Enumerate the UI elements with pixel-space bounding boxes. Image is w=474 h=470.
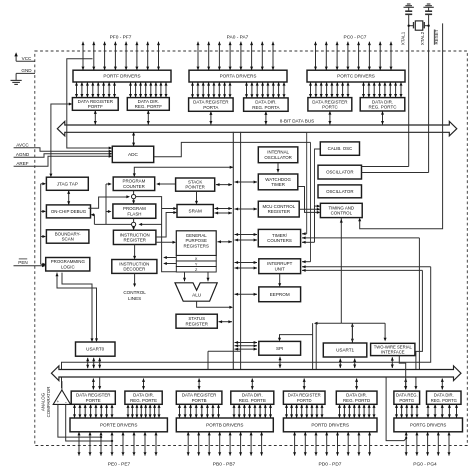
svg-text:JTAG TAP: JTAG TAP xyxy=(57,181,78,186)
PEN input xyxy=(14,259,46,267)
portF data register to bus arrow xyxy=(94,110,97,124)
mcu control to timing arrow xyxy=(299,208,320,211)
data dir. register PORTC xyxy=(360,98,405,111)
portC driver-dir arrows xyxy=(362,82,403,98)
PORTG drivers block xyxy=(394,418,463,432)
svg-text:CALIB. OSC: CALIB. OSC xyxy=(328,146,353,151)
crystal xyxy=(408,21,430,30)
timer bus arrow 1 xyxy=(235,233,258,236)
internal oscillator block xyxy=(258,147,298,163)
timer oscillator wire xyxy=(302,205,315,244)
instruction register to SRAM wires xyxy=(156,207,177,237)
portF data dir to bus arrow xyxy=(147,110,150,124)
data register PORTB xyxy=(176,391,222,404)
bus to portG register arrow xyxy=(404,378,407,389)
portG register-driver arrows xyxy=(395,404,419,418)
calib osc feed rail xyxy=(315,149,321,205)
svg-text:COUNTER: COUNTER xyxy=(123,184,145,189)
svg-text:PORTD DRIVERS: PORTD DRIVERS xyxy=(311,423,349,428)
PORTF drivers block xyxy=(73,70,171,82)
portE register-driver arrows xyxy=(73,404,114,418)
wire bus to program counter xyxy=(133,166,234,177)
data register PORTE xyxy=(71,391,115,404)
data register PORTG xyxy=(394,391,420,404)
portE dir-driver arrows xyxy=(127,404,161,418)
analog comparator xyxy=(53,381,70,405)
wire to on-chip debug xyxy=(91,213,95,224)
AREF input xyxy=(14,155,113,167)
oscillator block 1 xyxy=(318,165,362,179)
instruction decoder block xyxy=(112,260,157,274)
EEPROM block xyxy=(259,287,301,302)
PORTD drivers block xyxy=(283,418,377,432)
svg-text:PORTC: PORTC xyxy=(322,105,338,110)
svg-text:PA0 - PA7: PA0 - PA7 xyxy=(227,34,249,40)
svg-text:REG. PORTF: REG. PORTF xyxy=(135,104,163,109)
svg-text:EEPROM: EEPROM xyxy=(270,292,290,297)
8-bit data bus (upper) xyxy=(57,118,457,135)
bus to portE register arrow xyxy=(92,378,95,389)
svg-text:PD0 - PD7: PD0 - PD7 xyxy=(319,462,342,468)
SPI clock wire xyxy=(278,335,313,342)
portA data register to bus arrow xyxy=(209,111,212,124)
svg-text:PF0 - PF7: PF0 - PF7 xyxy=(110,34,132,40)
portF driver-dir arrows xyxy=(129,82,168,98)
SPI lower bus arrow xyxy=(279,357,282,369)
svg-text:FLASH: FLASH xyxy=(127,211,141,216)
port A pins PA0-PA7 xyxy=(197,34,275,70)
svg-text:AREF: AREF xyxy=(16,161,28,166)
timer long wire right xyxy=(302,236,419,369)
svg-text:PORTB DRIVERS: PORTB DRIVERS xyxy=(206,423,243,428)
portC data register to bus arrow xyxy=(328,111,331,125)
programming logic to USART0 wires xyxy=(56,273,99,342)
port F pins PF0-PF7 xyxy=(82,34,161,70)
USART1 block xyxy=(323,343,367,357)
svg-text:COMPARATOR: COMPARATOR xyxy=(46,387,51,418)
USART0 lower bus arrows xyxy=(86,358,101,369)
XTAL2 wire to oscillator xyxy=(362,51,429,173)
svg-text:SPI: SPI xyxy=(276,346,283,351)
data register PORTC xyxy=(308,98,352,111)
SPI block xyxy=(259,341,301,355)
svg-text:X: X xyxy=(195,257,198,261)
wire on-chip debug to program address node xyxy=(88,195,130,208)
svg-text:PG0 - PG4: PG0 - PG4 xyxy=(413,462,437,468)
stack pointer to SRAM arrow xyxy=(195,191,198,204)
svg-text:USART0: USART0 xyxy=(86,347,104,352)
svg-text:PORTF DRIVERS: PORTF DRIVERS xyxy=(103,74,140,79)
svg-text:INTERFACE: INTERFACE xyxy=(381,349,405,354)
eeprom bus arrow xyxy=(235,293,258,296)
portD dir-driver arrows xyxy=(338,404,376,418)
on-chip debug block xyxy=(46,205,90,218)
svg-text:PORTE: PORTE xyxy=(86,398,101,403)
svg-text:ANALOG: ANALOG xyxy=(40,392,45,411)
data dir. register PORTB xyxy=(231,391,274,404)
svg-text:COUNTERS: COUNTERS xyxy=(267,238,292,243)
bus to portG dir arrow xyxy=(441,378,444,389)
svg-text:PORTG: PORTG xyxy=(399,398,414,403)
calib osc to timing arrow xyxy=(315,205,321,208)
data register PORTF xyxy=(72,98,118,111)
svg-text:ADC: ADC xyxy=(128,152,139,157)
instruction register to registers arrow xyxy=(156,241,176,244)
svg-text:LOGIC: LOGIC xyxy=(61,264,75,269)
svg-text:XTAL2: XTAL2 xyxy=(420,31,425,45)
bus to portB register arrow xyxy=(198,378,201,389)
port C pins PC0-PC7 xyxy=(314,34,393,70)
instruction register to decoder arrow xyxy=(133,245,136,260)
svg-text:ALU: ALU xyxy=(192,293,201,298)
program flash block xyxy=(113,204,156,218)
serial clock rail xyxy=(315,323,317,369)
portG dir-driver arrows xyxy=(427,404,459,418)
svg-text:PE0 - PE7: PE0 - PE7 xyxy=(108,462,131,468)
SRAM block xyxy=(177,205,213,218)
svg-text:LINES: LINES xyxy=(128,296,141,301)
interrupt bus arrow 1 xyxy=(235,261,258,264)
TWI lower bus arrows xyxy=(391,357,394,368)
wire PORTF pins to ADC xyxy=(67,59,113,150)
svg-text:OSCILLATOR: OSCILLATOR xyxy=(326,189,353,194)
svg-text:PEN: PEN xyxy=(18,260,27,265)
control lines xyxy=(123,273,146,301)
svg-text:PORTC DRIVERS: PORTC DRIVERS xyxy=(337,74,375,79)
JTAG TAP block xyxy=(46,177,88,190)
status register bus arrow xyxy=(219,320,233,323)
port B pins PB0-PB7 xyxy=(187,432,263,456)
ALU output to bus xyxy=(197,301,233,309)
wire to lower bus xyxy=(208,351,241,370)
svg-text:AVCC: AVCC xyxy=(16,142,29,147)
GND pin with ground symbol xyxy=(11,68,36,84)
PORTC drivers block xyxy=(307,70,405,82)
data dir. register PORTF xyxy=(127,98,169,111)
MCU control register block xyxy=(258,201,299,217)
stack pointer block xyxy=(176,178,215,191)
8-bit data bus (lower) xyxy=(51,366,461,381)
port E pins PE0-PE7 xyxy=(78,432,158,456)
svg-text:REG. PORTC: REG. PORTC xyxy=(369,105,398,110)
bus to portE dir arrow xyxy=(142,378,145,389)
svg-text:PORTE DRIVERS: PORTE DRIVERS xyxy=(100,423,137,428)
chip boundary (dashed) xyxy=(35,51,468,446)
AGND input xyxy=(14,152,113,157)
svg-text:+: + xyxy=(57,399,60,404)
interrupt long wire right xyxy=(302,269,422,390)
portB dir-driver arrows xyxy=(233,404,273,418)
osc rail to timer arrow xyxy=(302,232,307,235)
osc rail to interrupt arrow xyxy=(302,260,311,263)
portC driver-register arrows xyxy=(309,82,350,98)
port D pins PD0-PD7 xyxy=(293,432,371,456)
stack pointer to program counter arrow xyxy=(156,183,175,186)
data dir. register PORTA xyxy=(244,98,289,111)
svg-text:Y: Y xyxy=(195,262,198,266)
interrupt to analog comparator wire xyxy=(62,265,431,388)
bus to portD dir arrow xyxy=(355,378,358,389)
portA data dir to bus arrow xyxy=(264,111,267,124)
interrupt to EEPROM wire xyxy=(278,274,281,287)
wire ADC to oscillator section xyxy=(154,142,311,156)
internal oscillator to watchdog arrow xyxy=(277,163,280,173)
svg-text:REGISTER: REGISTER xyxy=(185,321,207,326)
SRAM bus arrow 1 xyxy=(215,207,233,210)
two-wire serial interface block xyxy=(371,343,415,355)
portB register-driver arrows xyxy=(178,404,220,418)
timer bus arrow 2 xyxy=(235,239,258,242)
registers bus arrow xyxy=(217,240,232,243)
svg-text:TIMER: TIMER xyxy=(271,182,285,187)
svg-text:PB0 - PB7: PB0 - PB7 xyxy=(213,462,236,468)
svg-text:REGISTERS: REGISTERS xyxy=(184,243,209,248)
PORTB drivers block xyxy=(176,418,273,432)
wire PORTF register to JTAG TAP xyxy=(49,103,72,178)
spi bus arrow 3 xyxy=(235,348,258,351)
svg-text:AGND: AGND xyxy=(16,152,30,157)
data dir. register PORTG xyxy=(427,391,462,404)
svg-text:REG. PORTB: REG. PORTB xyxy=(239,398,266,403)
timer/counters block xyxy=(258,229,300,246)
svg-text:PORTD: PORTD xyxy=(297,398,312,403)
program counter block xyxy=(113,177,155,191)
left programming rail xyxy=(41,182,46,265)
svg-text:DECODER: DECODER xyxy=(123,267,145,272)
status register block xyxy=(176,314,217,328)
svg-text:SCAN: SCAN xyxy=(62,237,74,242)
svg-text:PC0 - PC7: PC0 - PC7 xyxy=(344,34,367,40)
spi bus arrow 1 xyxy=(235,341,258,344)
svg-text:ON-CHIP DEBUG: ON-CHIP DEBUG xyxy=(51,209,87,214)
portA driver-register arrows xyxy=(191,82,232,98)
interrupt unit block xyxy=(259,259,301,274)
svg-text:REG. PORTG: REG. PORTG xyxy=(431,398,457,403)
JTAG TAP to on-chip debug arrow xyxy=(67,190,70,205)
portC data dir to bus arrow xyxy=(381,111,384,125)
ADC to data bus arrow xyxy=(132,132,135,146)
SRAM bus arrow 2 xyxy=(215,212,233,215)
calibration oscillator block xyxy=(320,142,359,155)
timing and control block xyxy=(320,203,362,217)
bus to portD register arrow xyxy=(303,378,306,389)
spi bus arrow 2 xyxy=(235,344,258,347)
XTAL1 capacitor and ground xyxy=(404,4,414,51)
VCC supply pin xyxy=(14,52,35,61)
general purpose registers block with X Y Z xyxy=(176,231,216,272)
TWI to PORTG register wire xyxy=(399,356,407,390)
ADC block xyxy=(112,146,153,162)
svg-text:OSCILLATOR: OSCILLATOR xyxy=(264,155,291,160)
svg-text:REG. PORTA: REG. PORTA xyxy=(252,105,279,110)
svg-text:GND: GND xyxy=(21,68,32,73)
svg-text:SRAM: SRAM xyxy=(189,209,202,214)
svg-text:REG. PORTE: REG. PORTE xyxy=(130,398,157,403)
XTAL2 capacitor and ground xyxy=(423,4,433,51)
vertical data bus rail xyxy=(232,132,234,370)
svg-text:XTAL1: XTAL1 xyxy=(400,31,405,45)
data register PORTA xyxy=(189,98,234,111)
bus to PORTG pin wire xyxy=(386,377,407,441)
svg-text:CONTROL: CONTROL xyxy=(123,290,146,295)
registers to ALU arrows xyxy=(183,272,210,282)
ALU block xyxy=(175,283,217,301)
watchdog to timing arrow xyxy=(298,187,321,214)
svg-text:OSCILLATOR: OSCILLATOR xyxy=(326,170,353,175)
PORTE drivers block xyxy=(70,418,167,432)
svg-text:REGISTER: REGISTER xyxy=(123,238,145,243)
svg-text:REG. PORTD: REG. PORTD xyxy=(343,398,370,403)
bus to portB dir arrow xyxy=(251,378,254,389)
peripheral frame top xyxy=(241,132,307,233)
USART0 block xyxy=(76,342,116,356)
usart0 porte link xyxy=(98,377,101,390)
mcu control bus arrow xyxy=(235,208,258,211)
program counter to flash wire xyxy=(132,191,135,205)
oscillator block 2 xyxy=(318,185,362,198)
svg-text:PORTB: PORTB xyxy=(192,398,207,403)
svg-text:PORTA DRIVERS: PORTA DRIVERS xyxy=(220,74,257,79)
comparator input wires xyxy=(58,404,113,442)
analog comparator label xyxy=(40,387,51,418)
interrupt bus arrow 2 xyxy=(235,267,258,270)
svg-text:PORTF: PORTF xyxy=(88,104,103,109)
address rail left of flash xyxy=(106,183,112,225)
flash to instruction register wire xyxy=(132,218,135,230)
data dir. register PORTE xyxy=(125,391,162,404)
RESET wire to timing and control xyxy=(358,23,442,228)
XTAL1 wire to oscillator xyxy=(362,51,409,167)
portD register-driver arrows xyxy=(285,404,324,418)
AVCC input xyxy=(14,142,113,153)
svg-text:PORTG DRIVERS: PORTG DRIVERS xyxy=(410,422,446,427)
svg-text:CONTROL: CONTROL xyxy=(331,211,353,216)
svg-text:POINTER: POINTER xyxy=(185,185,205,190)
instruction register block xyxy=(113,230,155,244)
indirect addressing loop (X/Y/Z to flash) xyxy=(94,197,176,272)
X/Y register pointer arrows xyxy=(163,256,176,265)
node circle below program flash xyxy=(132,222,136,226)
portF driver-register arrows xyxy=(75,82,116,98)
PORTA drivers block xyxy=(189,70,287,82)
programming logic block xyxy=(46,258,90,272)
RESET label with overline xyxy=(434,29,439,45)
svg-text:REGISTER: REGISTER xyxy=(268,209,290,214)
watchdog bus arrow xyxy=(235,181,258,184)
port G pins PG0-PG4 xyxy=(405,432,451,456)
svg-text:USART1: USART1 xyxy=(336,348,354,353)
stack pointer bus arrow xyxy=(216,183,232,186)
clock distribution wires xyxy=(313,218,387,370)
node circle above program flash xyxy=(132,195,136,199)
peripheral frame rail xyxy=(240,132,242,370)
watchdog timer block xyxy=(258,174,298,190)
data dir. register PORTD xyxy=(336,391,377,404)
portA driver-dir arrows xyxy=(245,82,286,98)
svg-text:VCC: VCC xyxy=(22,56,32,61)
svg-text:PORTA: PORTA xyxy=(203,105,218,110)
svg-text:UNIT: UNIT xyxy=(275,266,286,271)
svg-text:8-BIT DATA BUS: 8-BIT DATA BUS xyxy=(280,118,314,123)
data register PORTD xyxy=(283,391,325,404)
oscillator feed rail xyxy=(310,142,312,261)
boundary-scan block xyxy=(46,230,89,243)
USART1 lower bus arrows xyxy=(339,358,356,368)
